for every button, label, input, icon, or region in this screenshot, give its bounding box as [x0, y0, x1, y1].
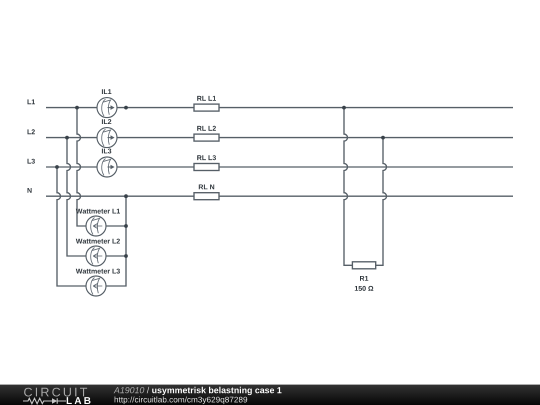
label RL L3	[197, 155, 216, 160]
wire tap L2 to R1 right (hops L3,N)	[376, 138, 387, 266]
resistor RL L2	[194, 134, 219, 141]
node junction L2 / R1 tap	[381, 136, 385, 140]
ammeter IL3	[97, 157, 117, 177]
wire tap L1 to Wattmeter L1 (hops L2,L3,N)	[77, 108, 86, 226]
label Wattmeter L2	[76, 239, 120, 244]
label L1	[28, 99, 36, 104]
node junction L1 node after IL1	[124, 106, 128, 110]
resistor R1	[352, 262, 375, 269]
wire wattmeter L1 output	[106, 225, 126, 227]
label R1	[360, 276, 368, 281]
node junction L2 / wattmeter tap	[65, 136, 69, 140]
label IL3	[102, 149, 111, 154]
label footer title	[152, 387, 281, 395]
ammeter IL1	[97, 98, 117, 118]
label logo LAB	[67, 397, 91, 404]
node junction N / wattmeter bus	[124, 194, 128, 198]
wire N horizontal	[46, 195, 513, 197]
node junction L3 / wattmeter tap	[55, 165, 59, 169]
label RL L1	[197, 96, 216, 101]
label RL L2	[197, 126, 216, 131]
label footer url	[115, 397, 248, 405]
node junction wattmeter L2 bus	[124, 254, 128, 258]
node junction L1 / R1 tap	[342, 106, 346, 110]
label logo CIRCUIT	[24, 388, 87, 397]
resistor RL L3	[194, 164, 219, 171]
logo diode symbol	[52, 398, 57, 404]
resistor RL N	[194, 193, 219, 200]
wire wattmeter return bus from N	[106, 196, 126, 286]
label N	[28, 188, 32, 193]
label L3	[28, 159, 35, 164]
wire wattmeter L2 output	[106, 255, 126, 257]
footer bar	[0, 385, 540, 405]
node junction L1 / wattmeter tap	[75, 106, 79, 110]
wire L3 horizontal	[46, 166, 513, 168]
ammeter IL2	[97, 128, 117, 148]
wire L1 horizontal	[46, 107, 513, 109]
label IL2	[102, 119, 111, 124]
label RL N	[199, 185, 214, 190]
node junction wattmeter L1 bus	[124, 224, 128, 228]
wattmeter Wattmeter L2	[86, 246, 106, 266]
label footer separator	[147, 387, 149, 394]
wire tap L1 to R1 left (hops L2,L3,N)	[344, 108, 352, 266]
label Wattmeter L3	[76, 269, 120, 274]
label value 150 ohm	[355, 286, 374, 291]
wattmeter Wattmeter L1	[86, 216, 106, 236]
label L2	[28, 129, 35, 134]
label Wattmeter L1	[76, 209, 120, 214]
wire tap L2 to Wattmeter L2 (hops L3,N)	[67, 138, 86, 256]
label footer id A19010	[114, 387, 145, 393]
label IL1	[102, 89, 112, 94]
wire L2 horizontal	[46, 137, 513, 139]
resistor RL L1	[194, 104, 219, 111]
wattmeter Wattmeter L3	[86, 276, 106, 296]
logo resistor squiggle	[23, 398, 52, 403]
wire tap L3 to Wattmeter L3 (hops N)	[57, 167, 86, 286]
